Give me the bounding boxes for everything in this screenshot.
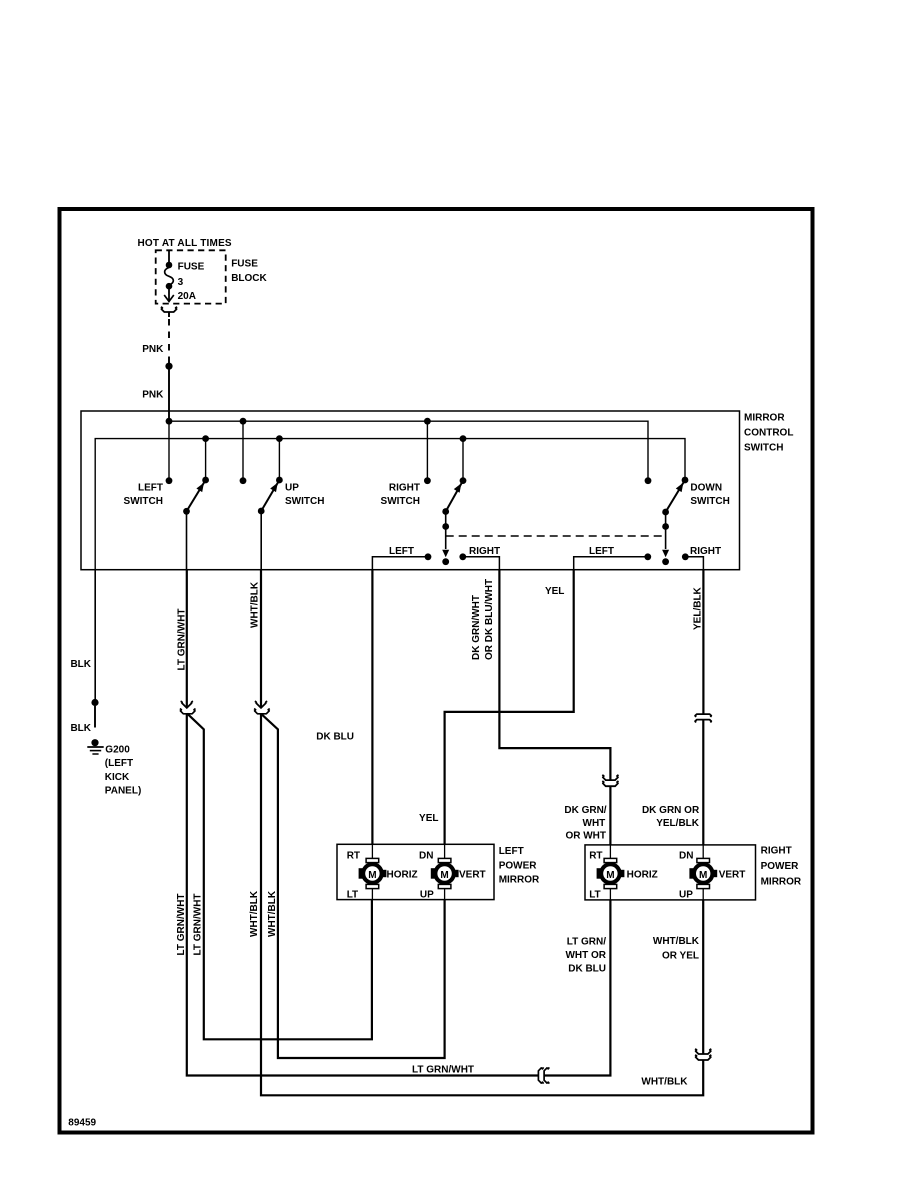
switch LEFT arm <box>183 480 206 515</box>
wire WHT/BLK from up switch <box>260 511 262 570</box>
svg-text:PNK: PNK <box>142 344 164 355</box>
connector in DK GRN/WHT <box>602 775 618 786</box>
connector in LT GRN/WHT <box>180 701 196 714</box>
svg-text:WHT/BLK: WHT/BLK <box>267 890 278 937</box>
wire DK BLU to left mirror RT <box>371 570 373 845</box>
node PNK splice <box>165 363 172 370</box>
svg-text:RIGHT: RIGHT <box>761 846 792 857</box>
wire LT GRN/WHT main run <box>187 714 539 1076</box>
svg-text:DK GRN/WHT: DK GRN/WHT <box>471 595 482 660</box>
node bus2 junction up-switch <box>276 435 283 442</box>
svg-text:SWITCH: SWITCH <box>285 496 324 507</box>
svg-text:FUSE: FUSE <box>178 262 205 273</box>
svg-text:WHT: WHT <box>583 818 606 829</box>
node BLK splice <box>91 699 98 706</box>
wire bus B+ (PNK feed bus) <box>169 421 648 481</box>
svg-text:OR WHT: OR WHT <box>565 831 606 842</box>
node bus2 junction right-switch <box>460 435 467 442</box>
svg-text:RIGHT: RIGHT <box>389 482 420 493</box>
svg-text:SWITCH: SWITCH <box>124 496 163 507</box>
svg-text:LT GRN/WHT: LT GRN/WHT <box>176 893 187 955</box>
svg-text:(LEFT: (LEFT <box>105 758 133 769</box>
connector in LT GRN/WHT horizontal <box>538 1067 549 1083</box>
svg-text:LT: LT <box>347 890 358 901</box>
svg-text:DOWN: DOWN <box>690 482 722 493</box>
svg-text:FUSE: FUSE <box>231 258 258 269</box>
svg-text:RIGHT: RIGHT <box>690 546 721 557</box>
terminal LEFT of right-switch <box>372 553 431 569</box>
svg-text:LT GRN/WHT: LT GRN/WHT <box>412 1065 474 1076</box>
wire BLK to ground <box>94 570 96 700</box>
switch UP arm <box>258 480 280 514</box>
svg-text:MIRROR: MIRROR <box>761 877 802 888</box>
terminal RIGHT of down-switch <box>682 553 704 569</box>
switch RIGHT arm <box>442 481 463 515</box>
fuse block box <box>156 250 226 303</box>
svg-text:OR DK BLU/WHT: OR DK BLU/WHT <box>484 579 495 660</box>
svg-text:DN: DN <box>419 851 433 862</box>
svg-text:YEL/BLK: YEL/BLK <box>656 818 700 829</box>
svg-text:DK BLU: DK BLU <box>316 732 354 743</box>
svg-text:VERT: VERT <box>719 869 746 880</box>
wire LT GRN/WHT branch to left mirror LT <box>187 714 372 1040</box>
svg-text:M: M <box>440 870 448 881</box>
node bus1 junction up-switch <box>240 418 247 425</box>
svg-text:UP: UP <box>420 890 434 901</box>
wire DK GRN/WHT OR DK BLU/WHT <box>499 570 610 780</box>
svg-text:CONTROL: CONTROL <box>744 428 793 439</box>
node bus1 junction PNK <box>166 418 173 425</box>
wire PNK solid <box>168 366 170 421</box>
svg-text:YEL/BLK: YEL/BLK <box>693 586 704 630</box>
svg-text:PNK: PNK <box>142 390 164 401</box>
wire BLK stub <box>94 706 96 728</box>
svg-text:WHT/BLK: WHT/BLK <box>250 581 261 628</box>
svg-text:M: M <box>699 870 707 881</box>
wire LT GRN/WHT from left switch <box>186 511 188 569</box>
svg-text:LT GRN/: LT GRN/ <box>567 937 606 948</box>
svg-text:WHT/BLK: WHT/BLK <box>249 890 260 937</box>
mechanical link dashed <box>446 535 666 537</box>
wire YEL to left mirror DN <box>445 570 574 845</box>
wire WHT/BLK main run <box>261 714 703 1096</box>
svg-text:YEL: YEL <box>419 813 438 824</box>
svg-text:UP: UP <box>679 890 693 901</box>
svg-text:DN: DN <box>679 851 693 862</box>
svg-text:LEFT: LEFT <box>389 546 414 557</box>
svg-text:HORIZ: HORIZ <box>387 869 418 880</box>
wire WHT/BLK OR YEL to right mirror UP <box>702 900 704 1054</box>
wire LT GRN/WHT to right mirror LT <box>544 900 610 1076</box>
svg-text:SWITCH: SWITCH <box>690 496 729 507</box>
wire stub up-switch contact A <box>242 421 244 481</box>
switch DOWN arm <box>662 480 685 515</box>
wire PNK dashed <box>168 312 170 318</box>
connector in YEL/BLK <box>695 714 711 722</box>
svg-text:POWER: POWER <box>499 860 538 871</box>
svg-text:WHT/BLK: WHT/BLK <box>641 1077 688 1088</box>
connector in WHT/BLK <box>254 701 270 714</box>
svg-text:LEFT: LEFT <box>499 846 524 857</box>
svg-text:M: M <box>368 870 376 881</box>
fuse output arrow <box>168 289 170 301</box>
left power mirror box <box>337 844 494 899</box>
svg-text:KICK: KICK <box>105 772 130 783</box>
wire fuse feed <box>168 250 170 263</box>
right-switch selector arm <box>442 512 449 566</box>
svg-text:89459: 89459 <box>68 1117 96 1128</box>
terminal RIGHT of right-switch <box>459 553 499 569</box>
motor right mirror HORIZ <box>597 845 625 900</box>
svg-text:OR YEL: OR YEL <box>662 951 699 962</box>
svg-text:UP: UP <box>285 482 299 493</box>
svg-text:BLK: BLK <box>70 723 91 734</box>
svg-text:RT: RT <box>347 851 360 862</box>
connector below fuse block <box>161 307 177 312</box>
svg-text:DK GRN/: DK GRN/ <box>564 805 606 816</box>
svg-text:RIGHT: RIGHT <box>469 546 500 557</box>
ground G200 <box>87 739 103 754</box>
svg-text:RT: RT <box>589 851 602 862</box>
mirror control switch box <box>81 411 740 570</box>
svg-text:DK GRN OR: DK GRN OR <box>642 805 700 816</box>
svg-text:20A: 20A <box>178 291 196 302</box>
motor left mirror HORIZ <box>359 844 387 899</box>
wire stub right-switch contact B <box>462 439 464 481</box>
wire stub left-switch contact B <box>205 439 207 480</box>
svg-text:DK BLU: DK BLU <box>568 964 606 975</box>
wire bus ground (BLK bus) <box>95 439 685 570</box>
svg-text:BLOCK: BLOCK <box>231 273 267 284</box>
svg-text:PANEL): PANEL) <box>105 786 141 797</box>
wire YEL/BLK <box>702 570 704 714</box>
down-switch selector arm <box>662 512 669 565</box>
connector in WHT/BLK riser <box>695 1049 711 1060</box>
svg-text:WHT OR: WHT OR <box>565 950 606 961</box>
svg-text:POWER: POWER <box>761 861 800 872</box>
svg-text:SWITCH: SWITCH <box>744 442 783 453</box>
right power mirror box <box>585 845 756 900</box>
svg-text:3: 3 <box>178 277 184 288</box>
motor left mirror VERT <box>431 844 459 899</box>
svg-text:MIRROR: MIRROR <box>744 413 785 424</box>
wire stub left-switch contact A <box>168 421 170 481</box>
node bus2 junction left-switch <box>202 435 209 442</box>
node down-switch contact A <box>645 477 652 484</box>
svg-text:VERT: VERT <box>459 869 486 880</box>
svg-text:SWITCH: SWITCH <box>381 496 420 507</box>
wire stub right-switch contact A <box>426 421 428 481</box>
svg-text:BLK: BLK <box>70 659 91 670</box>
node down-switch contact B <box>682 477 689 484</box>
fuse FUSE 3 20A <box>166 262 173 269</box>
wire DK GRN/WHT OR WHT to right mirror RT <box>609 786 611 845</box>
node bus1 junction right-switch <box>424 418 431 425</box>
svg-text:LEFT: LEFT <box>589 546 614 557</box>
wire DK GRN OR YEL/BLK to right mirror DN <box>702 720 704 845</box>
wire WHT/BLK branch to left mirror UP <box>262 714 445 1058</box>
wire stub up-switch contact B <box>278 439 280 480</box>
svg-text:G200: G200 <box>105 745 130 756</box>
svg-text:MIRROR: MIRROR <box>499 875 540 886</box>
svg-text:LT GRN/WHT: LT GRN/WHT <box>177 608 188 670</box>
svg-text:WHT/BLK: WHT/BLK <box>653 936 700 947</box>
svg-text:M: M <box>606 870 614 881</box>
motor right mirror VERT <box>689 845 717 900</box>
svg-text:HOT AT ALL TIMES: HOT AT ALL TIMES <box>138 238 232 249</box>
svg-text:LT GRN/WHT: LT GRN/WHT <box>193 893 204 955</box>
svg-text:HORIZ: HORIZ <box>627 869 658 880</box>
svg-text:LEFT: LEFT <box>138 482 163 493</box>
svg-text:YEL: YEL <box>545 586 564 597</box>
terminal LEFT of down-switch <box>574 553 651 569</box>
svg-text:LT: LT <box>589 890 600 901</box>
